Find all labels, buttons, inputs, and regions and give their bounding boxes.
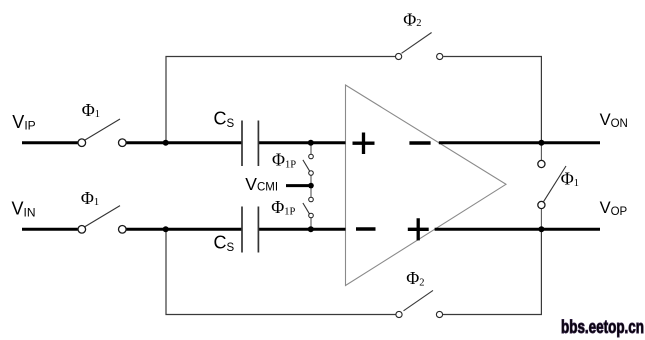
svg-text:Φ1: Φ1: [561, 169, 579, 189]
svg-text:VIP: VIP: [12, 112, 35, 132]
svg-text:VIN: VIN: [12, 199, 36, 220]
svg-text:CS: CS: [214, 108, 235, 130]
svg-text:VCMI: VCMI: [245, 174, 278, 194]
svg-text:bbs.eetop.cn: bbs.eetop.cn: [561, 317, 644, 337]
svg-text:Φ2: Φ2: [403, 10, 421, 30]
svg-text:Φ2: Φ2: [406, 268, 424, 289]
svg-text:Φ1: Φ1: [82, 100, 100, 120]
svg-text:Φ1P: Φ1P: [271, 197, 295, 218]
svg-text:Φ1: Φ1: [81, 188, 99, 208]
svg-text:Φ1P: Φ1P: [272, 150, 296, 171]
svg-text:VOP: VOP: [600, 199, 628, 218]
svg-text:CS: CS: [214, 233, 235, 255]
svg-text:VON: VON: [600, 111, 628, 130]
